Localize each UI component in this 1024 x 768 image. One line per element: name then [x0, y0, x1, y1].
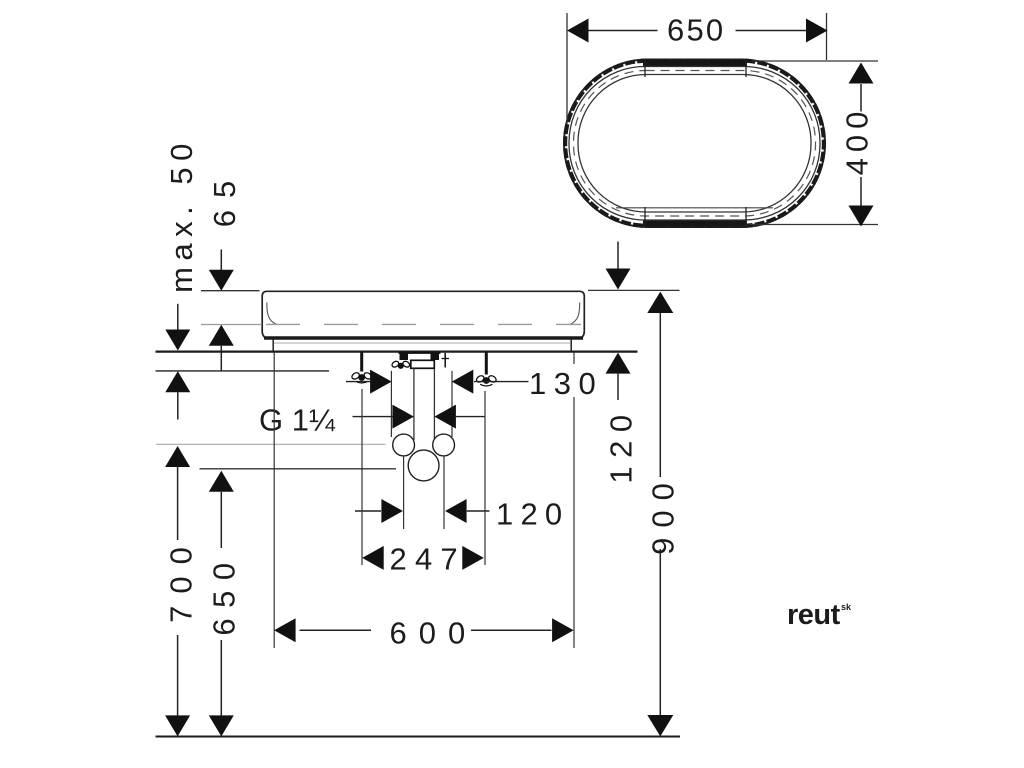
dim 600 arrow left	[274, 618, 296, 642]
dim 400 ext line bottom	[750, 224, 878, 226]
basin inner wall curve left	[267, 303, 277, 325]
ref line basin top right	[588, 289, 680, 291]
ref line supply height (700)	[156, 443, 386, 445]
dim 120 lower line	[355, 510, 381, 512]
dim 247 arrow right	[462, 546, 484, 570]
mounting bolt right	[485, 353, 488, 375]
dim 130 line	[346, 381, 370, 383]
dim G 1 1/4 line	[353, 416, 394, 418]
floor line	[156, 735, 681, 737]
faucet stud wing nut	[391, 360, 411, 368]
dim 65 upper arrow	[220, 250, 222, 271]
basin rim texture band	[565, 61, 824, 226]
basin inner dashed line	[574, 71, 816, 217]
dim 130 ext line left	[390, 371, 392, 437]
mounting bolt left	[360, 353, 363, 372]
svg-text:120: 120	[496, 497, 569, 532]
dim 400 ext line top	[752, 60, 878, 62]
drain pipe right edge	[433, 369, 435, 441]
svg-text:900: 900	[646, 473, 681, 555]
dim 247 arrow left	[362, 546, 384, 570]
ref line water level left	[201, 324, 262, 326]
dim 650 arrow right	[806, 19, 828, 43]
drain pipe left edge	[413, 369, 415, 441]
rim tick bottom-right	[745, 207, 747, 226]
supply tail left	[403, 456, 405, 529]
basin base lip shading line	[274, 342, 570, 344]
basin bottom thick edge	[264, 336, 583, 339]
basin base lip left edge	[272, 340, 274, 351]
dim 650 ext line left	[566, 13, 568, 122]
dim 600 ext line right	[573, 353, 575, 365]
dim max50 lower arrow	[165, 371, 190, 392]
dim 650 left line	[209, 471, 234, 492]
dim 120 lower arrow right	[445, 499, 467, 523]
basin outer rim (stadium outline)	[564, 60, 825, 228]
rim tick top-right	[745, 60, 747, 77]
ref line basin top left	[201, 290, 260, 292]
svg-text:247: 247	[390, 542, 466, 577]
wall mounting line	[156, 350, 638, 352]
drain top plate	[399, 352, 441, 354]
basin inner rim line	[569, 67, 820, 221]
svg-text:700: 700	[164, 535, 199, 623]
dim 900 line	[647, 292, 673, 313]
ref line mounting hardware	[156, 370, 330, 372]
faucet stud right pin	[442, 353, 450, 368]
svg-text:sk: sk	[841, 602, 852, 612]
basin water dashed line	[266, 323, 581, 325]
dim 600 ext line left	[273, 353, 275, 649]
dim 120 right upper arrow	[617, 242, 619, 269]
basin rim top thick edge	[643, 60, 747, 67]
supply circle left	[393, 434, 415, 456]
basin base lip right edge	[570, 340, 572, 351]
rim tick top-left	[644, 60, 646, 77]
drain circle	[408, 450, 439, 481]
basin rim bottom thick edge	[643, 220, 747, 227]
drain flange	[411, 360, 435, 368]
svg-text:G 1¼: G 1¼	[259, 403, 336, 438]
basin inner wall curve right	[570, 303, 580, 325]
ref line drain height (650)	[200, 468, 397, 470]
dim 130 arrow left	[370, 370, 392, 394]
svg-text:reut: reut	[787, 599, 841, 631]
svg-text:120: 120	[604, 406, 639, 483]
dim 65 lower arrow	[209, 325, 234, 346]
dim 247 ext line left	[361, 389, 363, 565]
wing nut left	[351, 371, 373, 383]
dim 650 ext line right	[826, 13, 828, 60]
dim 130 ext line right	[451, 371, 453, 437]
wing nut right	[475, 374, 497, 386]
rim tick bottom-left	[644, 207, 646, 226]
svg-text:65: 65	[207, 169, 242, 227]
dim 650 arrow left	[567, 19, 589, 43]
svg-text:400: 400	[840, 106, 875, 176]
basin body outline	[262, 291, 584, 338]
svg-text:650: 650	[667, 13, 725, 48]
dim 650 line	[587, 30, 658, 32]
dim 120 lower arrow left	[381, 499, 403, 523]
supply tail right	[443, 456, 445, 529]
dim 130 arrow right	[452, 370, 474, 394]
dim 600 arrow right	[552, 618, 574, 642]
dim 400 line	[860, 84, 862, 112]
dim 600 line	[300, 629, 372, 631]
dim G arrow right	[434, 405, 456, 429]
basin bowl inner edge	[578, 75, 811, 213]
dim 400 arrow bottom	[849, 206, 874, 227]
dim 120 right lower arrow	[606, 353, 631, 374]
svg-text:650: 650	[207, 552, 242, 635]
dim 247 ext line right	[484, 391, 486, 565]
supply circle right	[433, 434, 455, 456]
svg-text:130: 130	[529, 366, 603, 401]
svg-text:max. 50: max. 50	[164, 137, 199, 293]
svg-text:600: 600	[390, 616, 478, 651]
basin front shelf line	[616, 207, 773, 209]
dim G arrow left	[392, 405, 414, 429]
dim max50 upper arrow	[177, 304, 179, 330]
drain plate left tab	[400, 354, 409, 361]
dim 400 arrow top	[849, 63, 874, 84]
drain plate right tab	[431, 354, 440, 361]
dim 700 line	[165, 446, 190, 467]
